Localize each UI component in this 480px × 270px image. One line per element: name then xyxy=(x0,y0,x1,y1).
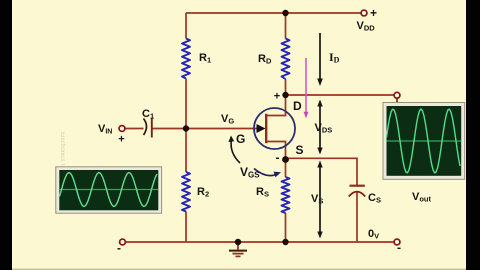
svg-text:-: - xyxy=(276,151,280,165)
svg-text:-: - xyxy=(397,241,401,255)
svg-text:+: + xyxy=(274,91,280,103)
svg-text:D: D xyxy=(293,99,302,113)
svg-text:-: - xyxy=(117,241,121,255)
svg-text:G: G xyxy=(236,132,245,146)
svg-text:+: + xyxy=(370,6,377,20)
svg-text:S: S xyxy=(296,143,304,157)
svg-text:+: + xyxy=(118,134,124,146)
